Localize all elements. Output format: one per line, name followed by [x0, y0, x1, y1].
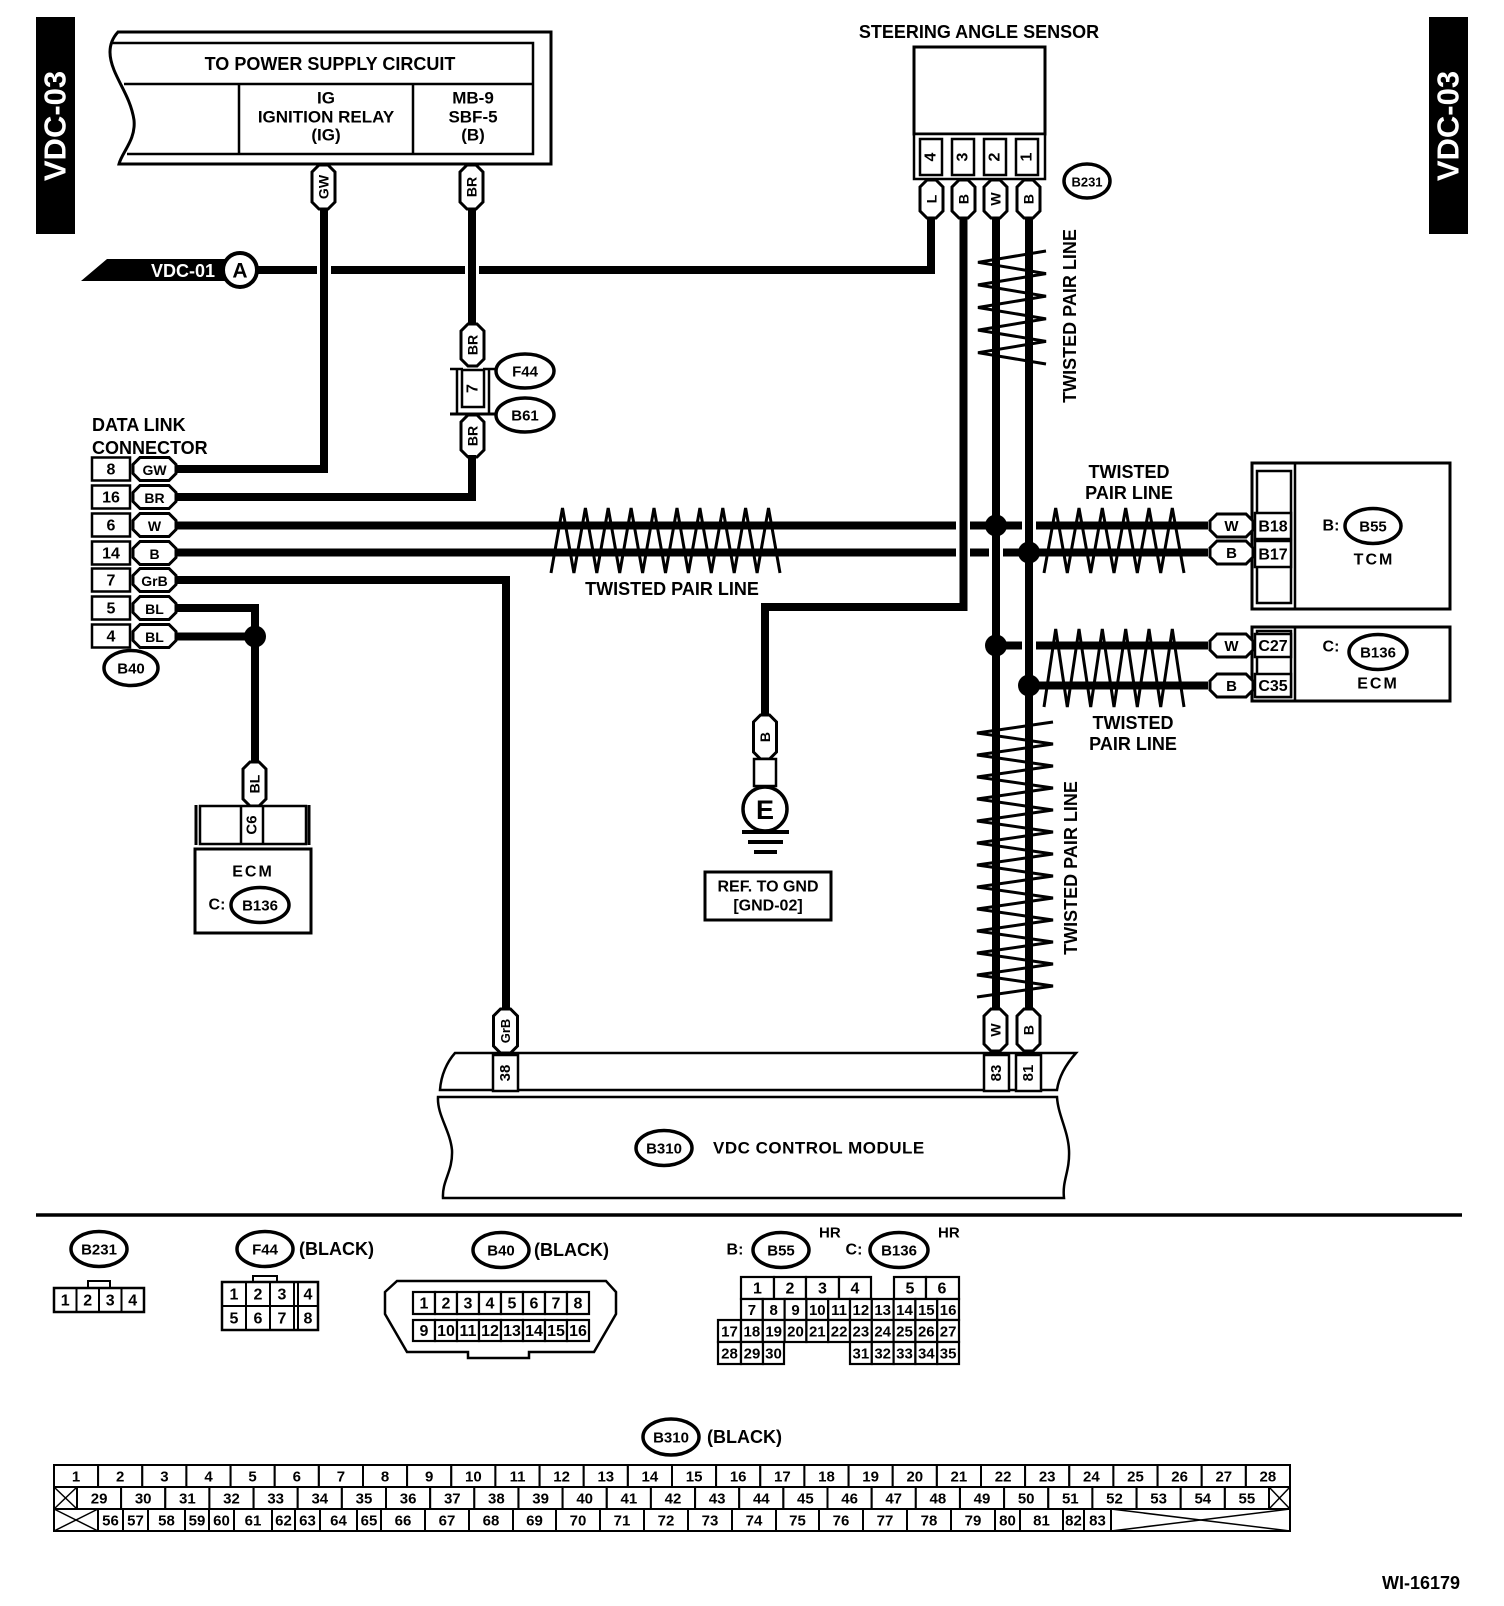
svg-text:TWISTED PAIR LINE: TWISTED PAIR LINE — [1061, 781, 1081, 955]
svg-text:30: 30 — [765, 1346, 782, 1363]
svg-text:15: 15 — [686, 1469, 703, 1486]
separator line — [36, 1213, 1462, 1217]
svg-text:7: 7 — [552, 1296, 561, 1313]
svg-text:3: 3 — [818, 1281, 827, 1298]
VDC module pin 38 — [493, 1055, 518, 1091]
svg-text:43: 43 — [709, 1491, 726, 1508]
svg-text:8: 8 — [770, 1302, 778, 1319]
svg-text:CONNECTOR: CONNECTOR — [92, 438, 208, 458]
svg-text:B: B — [956, 194, 972, 204]
svg-text:GW: GW — [142, 462, 167, 478]
wire label W at ECM — [1210, 634, 1253, 657]
svg-text:12: 12 — [853, 1302, 870, 1319]
wire B data link pin 14 to TCM B17 (hops pin3-B and W wires, junction at pin1-B wire) — [176, 549, 956, 557]
wire label B (pin 3) — [952, 180, 975, 218]
svg-text:REF. TO GND: REF. TO GND — [717, 879, 818, 896]
svg-text:2: 2 — [786, 1281, 795, 1298]
svg-text:58: 58 — [158, 1513, 175, 1530]
svg-text:C27: C27 — [1258, 638, 1287, 655]
svg-text:5: 5 — [906, 1281, 915, 1298]
svg-text:4: 4 — [128, 1293, 137, 1310]
svg-text:79: 79 — [965, 1513, 982, 1530]
svg-text:76: 76 — [833, 1513, 850, 1530]
wire B to ECM C35 (junction on pin1-B wire) — [1029, 682, 1208, 690]
svg-text:TO POWER SUPPLY CIRCUIT: TO POWER SUPPLY CIRCUIT — [205, 54, 456, 74]
svg-text:74: 74 — [746, 1513, 763, 1530]
svg-text:SBF-5: SBF-5 — [448, 108, 497, 127]
svg-text:10: 10 — [809, 1302, 826, 1319]
svg-text:11: 11 — [460, 1323, 477, 1340]
svg-text:33: 33 — [267, 1491, 284, 1508]
svg-text:5: 5 — [107, 601, 116, 618]
wire label BL above ECM — [243, 762, 266, 806]
wire BL data link pin 5 — [176, 608, 255, 765]
svg-text:16: 16 — [569, 1323, 587, 1340]
svg-text:9: 9 — [420, 1323, 429, 1340]
svg-text:16: 16 — [940, 1302, 957, 1319]
svg-text:40: 40 — [576, 1491, 593, 1508]
node A circle — [223, 253, 257, 287]
svg-text:TWISTED PAIR LINE: TWISTED PAIR LINE — [1060, 229, 1080, 403]
ECM assembly (right) — [1252, 627, 1450, 701]
svg-text:26: 26 — [918, 1324, 935, 1341]
svg-text:1: 1 — [420, 1296, 429, 1313]
svg-text:18: 18 — [744, 1324, 761, 1341]
legend connector oval B231 — [71, 1232, 127, 1267]
sensor pin 2 — [984, 139, 1006, 175]
wire label B (pin 1) — [1017, 180, 1040, 218]
svg-text:B: B — [1021, 1025, 1037, 1035]
svg-text:67: 67 — [439, 1513, 456, 1530]
svg-text:L: L — [924, 194, 940, 203]
svg-text:VDC-01: VDC-01 — [151, 261, 215, 281]
wire label W at TCM — [1210, 514, 1253, 537]
ground E symbol — [742, 786, 789, 852]
svg-text:68: 68 — [483, 1513, 500, 1530]
connector oval B55 — [1345, 509, 1401, 544]
svg-text:34: 34 — [311, 1491, 328, 1508]
svg-text:16: 16 — [730, 1469, 747, 1486]
wire label W at module — [984, 1009, 1007, 1051]
svg-text:23: 23 — [853, 1324, 870, 1341]
svg-text:73: 73 — [702, 1513, 719, 1530]
svg-text:4: 4 — [304, 1287, 313, 1304]
svg-text:33: 33 — [896, 1346, 913, 1363]
steering angle sensor — [859, 22, 1099, 179]
svg-text:GrB: GrB — [141, 573, 167, 589]
svg-text:B:: B: — [727, 1242, 744, 1259]
svg-text:50: 50 — [1018, 1491, 1035, 1508]
svg-text:54: 54 — [1194, 1491, 1211, 1508]
svg-text:(B): (B) — [461, 126, 485, 145]
svg-text:1: 1 — [753, 1281, 762, 1298]
junction W wire / C27 line — [985, 635, 1007, 657]
svg-text:82: 82 — [1065, 1513, 1082, 1530]
svg-text:5: 5 — [248, 1469, 256, 1486]
svg-text:13: 13 — [503, 1323, 521, 1340]
svg-text:TWISTED: TWISTED — [1089, 462, 1170, 482]
svg-text:14: 14 — [525, 1323, 543, 1340]
wire BR from SBF-5 to fuse — [468, 205, 476, 330]
twisted pair braid middle — [551, 508, 780, 573]
wire A horizontal line (hops GW and BR wires) — [240, 266, 317, 274]
wire W to ECM C27 (junction on W wire, hops pin1-B wire) — [996, 642, 1022, 650]
svg-text:44: 44 — [753, 1491, 770, 1508]
connector oval B231 — [1064, 164, 1110, 198]
svg-text:13: 13 — [874, 1302, 891, 1319]
svg-text:55: 55 — [1239, 1491, 1256, 1508]
svg-text:12: 12 — [481, 1323, 499, 1340]
junction B wire / C35 line — [1018, 675, 1040, 697]
power supply circuit box — [110, 32, 551, 164]
svg-text:5: 5 — [230, 1311, 239, 1328]
connector oval F44 — [496, 354, 554, 388]
legend connector B55/B136 pinout grid — [718, 1277, 959, 1364]
svg-text:56: 56 — [102, 1513, 119, 1530]
svg-text:8: 8 — [381, 1469, 389, 1486]
svg-text:TWISTED PAIR LINE: TWISTED PAIR LINE — [585, 579, 759, 599]
wire label B at ECM — [1210, 674, 1253, 697]
svg-text:46: 46 — [841, 1491, 858, 1508]
legend connector B231 pinout — [54, 1281, 144, 1312]
svg-text:B136: B136 — [242, 898, 278, 915]
connector oval B40 — [104, 651, 158, 686]
wire label BR above fuse — [461, 324, 484, 366]
svg-text:19: 19 — [862, 1469, 879, 1486]
wire label B at module — [1017, 1009, 1040, 1051]
svg-text:38: 38 — [497, 1065, 514, 1082]
sensor pin 4 — [920, 139, 942, 175]
VDC control module — [438, 1053, 1076, 1198]
svg-text:C6: C6 — [244, 815, 261, 834]
ref to gnd box — [705, 872, 831, 920]
svg-text:C:: C: — [1323, 639, 1340, 656]
svg-text:6: 6 — [254, 1311, 263, 1328]
twisted pair braid to ECM — [1044, 629, 1184, 707]
svg-text:W: W — [148, 518, 162, 534]
svg-text:15: 15 — [918, 1302, 935, 1319]
legend connector B40 pinout — [385, 1281, 616, 1358]
svg-text:24: 24 — [874, 1324, 891, 1341]
legend connector oval F44 — [237, 1232, 293, 1267]
svg-text:B55: B55 — [1359, 519, 1387, 536]
svg-text:78: 78 — [921, 1513, 938, 1530]
svg-text:2: 2 — [116, 1469, 124, 1486]
svg-text:(BLACK): (BLACK) — [534, 1240, 609, 1260]
svg-text:6: 6 — [530, 1296, 539, 1313]
svg-text:14: 14 — [896, 1302, 913, 1319]
svg-text:36: 36 — [400, 1491, 417, 1508]
ECM connector (left) — [196, 805, 309, 845]
svg-text:B: B — [1226, 678, 1237, 695]
svg-text:VDC CONTROL MODULE: VDC CONTROL MODULE — [713, 1139, 925, 1158]
wire label BR at power box — [460, 165, 483, 209]
svg-text:60: 60 — [213, 1513, 230, 1530]
svg-text:C:: C: — [846, 1242, 863, 1259]
svg-text:65: 65 — [361, 1513, 378, 1530]
svg-text:53: 53 — [1150, 1491, 1167, 1508]
wire W data link pin 6 to TCM B18 (hops pin3-B wire, junction at W wire, hops pin1-B wire) — [176, 522, 956, 530]
junction W wire / B18 line — [985, 515, 1007, 537]
svg-text:DATA LINK: DATA LINK — [92, 415, 186, 435]
svg-text:23: 23 — [1039, 1469, 1056, 1486]
svg-text:29: 29 — [744, 1346, 761, 1363]
svg-text:BL: BL — [247, 774, 263, 793]
svg-text:24: 24 — [1083, 1469, 1100, 1486]
svg-text:32: 32 — [223, 1491, 240, 1508]
svg-text:C35: C35 — [1258, 678, 1287, 695]
svg-text:62: 62 — [275, 1513, 292, 1530]
svg-text:W: W — [1224, 518, 1239, 535]
junction B wire / B17 line — [1018, 542, 1040, 564]
svg-text:83: 83 — [988, 1065, 1005, 1082]
wire B from sensor pin 1 down to VDC control module pin 81 — [1025, 214, 1033, 1012]
sensor pin 1 — [1016, 139, 1038, 175]
svg-text:B61: B61 — [511, 408, 539, 425]
svg-text:C:: C: — [209, 897, 226, 914]
svg-text:TCM: TCM — [1354, 552, 1395, 569]
data link pin 5 (BL) — [92, 597, 130, 620]
svg-text:B: B — [1226, 545, 1237, 562]
svg-text:25: 25 — [896, 1324, 913, 1341]
ground wire label B — [754, 715, 777, 759]
svg-text:31: 31 — [853, 1346, 870, 1363]
svg-text:WI-16179: WI-16179 — [1382, 1573, 1460, 1593]
svg-text:6: 6 — [107, 518, 116, 535]
wire GW from ignition relay to data link connector pin 8 — [176, 205, 324, 469]
svg-text:B231: B231 — [81, 1242, 117, 1259]
svg-text:20: 20 — [787, 1324, 804, 1341]
svg-text:7: 7 — [748, 1302, 756, 1319]
connector oval B136 (left ECM) — [231, 888, 289, 923]
svg-text:W: W — [988, 1023, 1004, 1037]
svg-text:MB-9: MB-9 — [452, 89, 494, 108]
svg-text:1: 1 — [230, 1287, 239, 1304]
wire label BR below fuse — [461, 415, 484, 457]
data link pin 4 (BL) — [92, 625, 130, 648]
ECM box (left) — [195, 849, 311, 933]
svg-text:(IG): (IG) — [311, 126, 340, 145]
svg-text:BR: BR — [465, 335, 481, 355]
svg-text:17: 17 — [774, 1469, 791, 1486]
svg-text:IG: IG — [317, 89, 335, 108]
data link pin 14 (B) — [92, 542, 130, 565]
svg-text:45: 45 — [797, 1491, 814, 1508]
svg-text:25: 25 — [1127, 1469, 1144, 1486]
svg-text:HR: HR — [938, 1225, 960, 1242]
svg-text:VDC-03: VDC-03 — [1431, 71, 1466, 181]
svg-text:80: 80 — [999, 1513, 1016, 1530]
svg-text:1: 1 — [72, 1469, 80, 1486]
svg-text:11: 11 — [831, 1302, 847, 1319]
legend connector B310 pinout grid — [54, 1465, 1290, 1531]
svg-text:VDC-03: VDC-03 — [38, 71, 73, 181]
svg-text:GrB: GrB — [498, 1019, 513, 1044]
svg-text:2: 2 — [83, 1293, 92, 1310]
svg-text:5: 5 — [508, 1296, 517, 1313]
svg-text:31: 31 — [179, 1491, 196, 1508]
svg-text:11: 11 — [510, 1469, 526, 1486]
wire W from sensor pin 2 down to VDC control module pin 83 — [992, 214, 1000, 1012]
svg-text:32: 32 — [874, 1346, 891, 1363]
svg-text:A: A — [232, 260, 247, 283]
svg-text:70: 70 — [570, 1513, 587, 1530]
svg-text:ECM: ECM — [1357, 676, 1399, 693]
svg-text:28: 28 — [721, 1346, 738, 1363]
wire label GW at power box — [312, 165, 335, 209]
svg-text:13: 13 — [597, 1469, 614, 1486]
fuse F44 no.7 — [450, 369, 496, 414]
svg-text:2: 2 — [987, 152, 1004, 161]
svg-text:B18: B18 — [1258, 519, 1287, 536]
svg-text:HR: HR — [819, 1225, 841, 1242]
svg-text:8: 8 — [304, 1311, 313, 1328]
svg-text:PAIR LINE: PAIR LINE — [1085, 483, 1173, 503]
svg-text:51: 51 — [1062, 1491, 1079, 1508]
svg-text:39: 39 — [532, 1491, 549, 1508]
twisted pair braid to TCM — [1044, 508, 1184, 573]
svg-text:61: 61 — [245, 1513, 262, 1530]
svg-text:42: 42 — [665, 1491, 682, 1508]
long twisted pair braid to VDC module — [977, 722, 1053, 997]
VDC module pin 83 — [984, 1055, 1009, 1091]
wire B from sensor pin 3 to ground — [765, 214, 964, 716]
svg-text:ECM: ECM — [232, 864, 274, 881]
svg-text:STEERING ANGLE SENSOR: STEERING ANGLE SENSOR — [859, 22, 1099, 42]
svg-text:B55: B55 — [767, 1243, 795, 1260]
legend connector oval B40 — [473, 1233, 529, 1268]
data link pin 7 (GrB) — [92, 569, 130, 592]
svg-text:21: 21 — [809, 1324, 826, 1341]
ground connector box — [754, 759, 776, 786]
svg-text:14: 14 — [102, 546, 120, 563]
legend connector oval B310 — [643, 1419, 699, 1455]
svg-text:GW: GW — [316, 174, 332, 199]
legend connector F44 pinout — [222, 1276, 318, 1330]
svg-text:3: 3 — [464, 1296, 473, 1313]
ECM pin C27 — [1255, 634, 1291, 657]
svg-text:64: 64 — [330, 1513, 347, 1530]
svg-text:7: 7 — [337, 1469, 345, 1486]
svg-text:26: 26 — [1171, 1469, 1188, 1486]
svg-text:30: 30 — [135, 1491, 152, 1508]
wire label W (pin 2) — [984, 180, 1007, 218]
svg-text:59: 59 — [189, 1513, 206, 1530]
svg-text:B231: B231 — [1071, 175, 1102, 190]
svg-text:18: 18 — [818, 1469, 835, 1486]
svg-text:4: 4 — [923, 152, 940, 161]
data link pin 8 (GW) — [92, 458, 130, 481]
wire label GrB at module — [494, 1009, 518, 1053]
svg-text:22: 22 — [995, 1469, 1012, 1486]
svg-text:8: 8 — [107, 462, 116, 479]
svg-text:B: B — [149, 546, 159, 562]
svg-text:BR: BR — [464, 177, 480, 197]
svg-text:3: 3 — [955, 152, 972, 161]
svg-text:B310: B310 — [646, 1141, 682, 1158]
svg-text:1: 1 — [1019, 152, 1036, 161]
svg-text:41: 41 — [621, 1491, 638, 1508]
svg-text:35: 35 — [356, 1491, 373, 1508]
TCM pin B17 — [1255, 541, 1291, 567]
twisted pair braid below sensor — [978, 251, 1046, 364]
svg-text:B310: B310 — [653, 1430, 689, 1447]
svg-text:3: 3 — [278, 1287, 287, 1304]
svg-text:20: 20 — [906, 1469, 923, 1486]
svg-text:F44: F44 — [512, 364, 539, 381]
VDC module pin 81 — [1016, 1055, 1041, 1091]
svg-text:77: 77 — [877, 1513, 894, 1530]
svg-text:[GND-02]: [GND-02] — [733, 898, 802, 915]
svg-text:75: 75 — [789, 1513, 806, 1530]
svg-text:(BLACK): (BLACK) — [299, 1239, 374, 1259]
svg-text:69: 69 — [526, 1513, 543, 1530]
wire BL data link pin 4 — [176, 633, 255, 641]
svg-text:(BLACK): (BLACK) — [707, 1427, 782, 1447]
page tab VDC-03 right — [1429, 17, 1468, 234]
svg-text:17: 17 — [721, 1324, 738, 1341]
svg-text:4: 4 — [851, 1281, 860, 1298]
svg-text:TWISTED: TWISTED — [1093, 713, 1174, 733]
svg-text:W: W — [1224, 638, 1239, 655]
svg-text:1: 1 — [61, 1293, 70, 1310]
svg-text:83: 83 — [1089, 1513, 1106, 1530]
ECM pin C35 — [1255, 674, 1291, 697]
svg-text:35: 35 — [940, 1346, 957, 1363]
wire label B at TCM — [1210, 541, 1253, 564]
svg-text:38: 38 — [488, 1491, 505, 1508]
svg-text:7: 7 — [107, 573, 116, 590]
svg-text:27: 27 — [1215, 1469, 1232, 1486]
svg-text:7: 7 — [278, 1311, 287, 1328]
svg-text:28: 28 — [1260, 1469, 1277, 1486]
svg-text:27: 27 — [940, 1324, 957, 1341]
wire label L — [920, 180, 943, 218]
svg-text:16: 16 — [102, 490, 120, 507]
svg-text:B17: B17 — [1258, 547, 1287, 564]
svg-text:6: 6 — [938, 1281, 947, 1298]
svg-text:9: 9 — [425, 1469, 433, 1486]
svg-text:4: 4 — [486, 1296, 495, 1313]
svg-text:B40: B40 — [117, 661, 145, 678]
svg-text:29: 29 — [91, 1491, 108, 1508]
svg-text:63: 63 — [299, 1513, 316, 1530]
page tab VDC-03 left — [36, 17, 75, 234]
svg-text:12: 12 — [553, 1469, 570, 1486]
svg-text:BL: BL — [145, 601, 164, 617]
svg-text:6: 6 — [293, 1469, 301, 1486]
svg-text:48: 48 — [930, 1491, 947, 1508]
svg-text:4: 4 — [107, 629, 116, 646]
svg-text:37: 37 — [444, 1491, 461, 1508]
sensor pin 3 — [952, 139, 974, 175]
svg-text:9: 9 — [791, 1302, 799, 1319]
svg-text:52: 52 — [1106, 1491, 1123, 1508]
svg-text:10: 10 — [465, 1469, 482, 1486]
svg-text:14: 14 — [642, 1469, 659, 1486]
svg-text:71: 71 — [614, 1513, 631, 1530]
svg-text:7: 7 — [465, 384, 482, 393]
svg-text:72: 72 — [658, 1513, 675, 1530]
svg-text:BR: BR — [144, 490, 164, 506]
svg-text:22: 22 — [831, 1324, 848, 1341]
svg-text:BL: BL — [145, 629, 164, 645]
svg-text:BR: BR — [465, 426, 481, 446]
TCM assembly — [1252, 463, 1450, 609]
svg-text:B: B — [1021, 194, 1037, 204]
svg-text:49: 49 — [974, 1491, 991, 1508]
svg-text:8: 8 — [574, 1296, 583, 1313]
